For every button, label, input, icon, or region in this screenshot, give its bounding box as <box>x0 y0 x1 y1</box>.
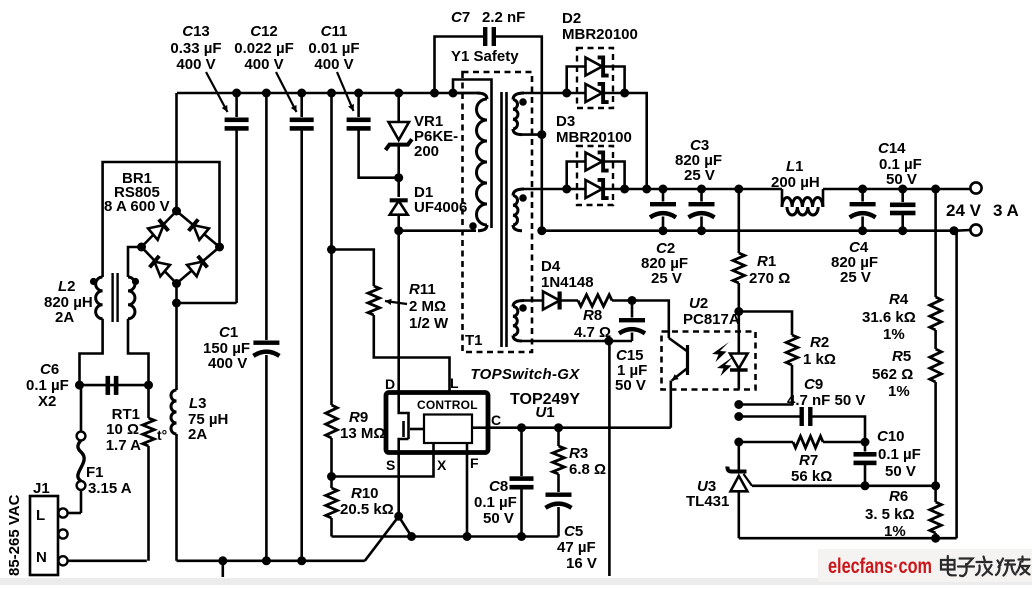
svg-text:C14: C14 <box>878 140 906 157</box>
wire: opto collector to bias supply <box>632 301 669 333</box>
svg-text:2A: 2A <box>188 426 207 443</box>
svg-text:L: L <box>36 507 45 524</box>
svg-text:L3: L3 <box>189 395 207 412</box>
svg-text:400 V: 400 V <box>208 355 247 372</box>
svg-text:C8: C8 <box>489 478 508 495</box>
thermistor RT1 10 ohm 1.7 A <box>106 385 168 561</box>
connector J1 85-265 VAC <box>6 480 81 576</box>
wire: L2 right leg to C6/RT1 <box>128 319 149 385</box>
elecfans watermark <box>818 549 1032 582</box>
chinese caption dian zi fa shao you <box>941 556 1030 576</box>
svg-text:C7: C7 <box>451 9 470 26</box>
wire: drain vertical to U1 D pin <box>397 231 400 393</box>
svg-text:T1: T1 <box>465 332 483 349</box>
svg-text:R3: R3 <box>569 445 588 462</box>
svg-text:D3: D3 <box>556 113 575 130</box>
svg-text:20.5 kΩ: 20.5 kΩ <box>340 501 394 518</box>
svg-text:R10: R10 <box>351 485 379 502</box>
svg-text:0.1 µF: 0.1 µF <box>878 446 921 463</box>
svg-text:C6: C6 <box>40 361 59 378</box>
dual diode D3 MBR20100 <box>556 113 632 205</box>
svg-text:C12: C12 <box>250 23 278 40</box>
wire: output negative return vertical <box>955 231 958 539</box>
common-mode choke L2 820 uH 2A <box>44 273 139 326</box>
svg-text:F: F <box>470 455 479 471</box>
capacitor C15 1 uF 50 V <box>615 301 647 395</box>
capacitor C10 0.1 uF 50 V <box>854 428 921 490</box>
wire: L2 left leg to C6 <box>80 319 103 385</box>
wire: L2 right to bridge AC input (left vertex) <box>128 247 142 277</box>
wire: bridge negative output node <box>172 284 237 391</box>
wire: drain node to primary bottom <box>399 229 476 232</box>
wire: opto emitter to control pin <box>669 389 672 428</box>
svg-text:400 V: 400 V <box>314 56 353 73</box>
svg-text:50 V: 50 V <box>615 377 646 394</box>
svg-text:2A: 2A <box>55 309 74 326</box>
svg-text:1N4148: 1N4148 <box>541 274 594 291</box>
svg-text:31.6 kΩ: 31.6 kΩ <box>862 309 916 326</box>
wire: 24V output rail <box>524 185 970 194</box>
wire: primary source rail <box>332 532 559 541</box>
wire: TL431 reference line <box>752 481 940 490</box>
capacitor C1 150 uF 400 V <box>203 93 279 561</box>
wire: secondary return rail <box>542 226 959 235</box>
fuse F1 3.15 A <box>77 385 132 513</box>
svg-text:10 Ω: 10 Ω <box>106 421 139 438</box>
svg-text:1.7 A: 1.7 A <box>106 437 141 454</box>
wire: rail drop to bridge positive output <box>175 93 178 211</box>
transformer T1 secondary winding 2 <box>513 189 527 231</box>
svg-text:N: N <box>36 549 47 566</box>
svg-text:X2: X2 <box>38 393 56 410</box>
svg-text:6.8 Ω: 6.8 Ω <box>569 461 606 478</box>
svg-text:13 MΩ: 13 MΩ <box>340 425 385 442</box>
inductor L3 75 uH 2A <box>171 390 228 561</box>
svg-text:UF4006: UF4006 <box>414 199 467 216</box>
svg-text:25 V: 25 V <box>651 270 682 287</box>
resistor R10 20.5 kohm <box>326 485 394 518</box>
svg-text:L2: L2 <box>58 278 76 295</box>
svg-text:1/2 W: 1/2 W <box>409 315 449 332</box>
transformer T1 dashed box <box>463 72 533 352</box>
capacitor C6 0.1 uF X2 <box>26 361 153 410</box>
transformer T1 core <box>502 92 507 347</box>
svg-text:0.1 µF: 0.1 µF <box>474 494 517 511</box>
inductor L1 200 uH <box>771 158 823 215</box>
svg-text:D: D <box>385 376 395 392</box>
resistor R11 2 Mohm 1/2 W <box>327 245 450 393</box>
capacitor C11 0.01 uF 400 V <box>308 23 398 178</box>
capacitor C3 820 uF 25 V <box>675 137 722 231</box>
svg-text:U1: U1 <box>535 404 554 421</box>
svg-text:0.33 µF: 0.33 µF <box>170 40 221 57</box>
svg-text:D4: D4 <box>541 258 561 275</box>
optocoupler U2 PC817A <box>662 295 756 390</box>
svg-text:0.1 µF: 0.1 µF <box>26 377 69 394</box>
svg-text:50 V: 50 V <box>483 510 514 527</box>
svg-text:3. 5 kΩ: 3. 5 kΩ <box>865 506 915 523</box>
svg-text:0.022 µF: 0.022 µF <box>234 40 294 57</box>
svg-text:47 µF: 47 µF <box>557 539 596 556</box>
transformer T1 primary winding <box>453 93 487 231</box>
svg-text:Y1 Safety: Y1 Safety <box>451 48 519 65</box>
svg-text:R4: R4 <box>889 291 909 308</box>
transformer T1 shield winding <box>453 80 492 229</box>
svg-text:C13: C13 <box>182 23 210 40</box>
U1 part labels <box>470 366 580 421</box>
svg-text:J1: J1 <box>33 480 50 497</box>
svg-text:TL431: TL431 <box>686 493 729 510</box>
svg-text:400 V: 400 V <box>176 56 215 73</box>
svg-text:2.2 nF: 2.2 nF <box>482 9 525 26</box>
capacitor C8 0.1 uF 50 V <box>474 428 534 537</box>
svg-text:PC817A: PC817A <box>683 311 740 328</box>
svg-text:C10: C10 <box>877 428 905 445</box>
resistor R7 56 kohm <box>734 436 869 485</box>
svg-text:TOPSwitch-GX: TOPSwitch-GX <box>470 366 580 383</box>
svg-text:50 V: 50 V <box>885 463 916 480</box>
svg-text:R9: R9 <box>349 409 368 426</box>
svg-text:562 Ω: 562 Ω <box>872 366 913 383</box>
resistor R8 4.7 ohm <box>574 295 637 341</box>
svg-text:1%: 1% <box>888 383 910 400</box>
wire: C pin control line <box>488 423 671 432</box>
svg-text:CONTROL: CONTROL <box>417 398 478 412</box>
svg-text:24 V: 24 V <box>946 201 982 220</box>
svg-text:25 V: 25 V <box>684 167 715 184</box>
capacitor C5 47 uF 16 V <box>546 493 597 573</box>
transient suppressor VR1 P6KE-200 <box>386 93 459 182</box>
svg-text:25 V: 25 V <box>840 269 871 286</box>
svg-text:200 µH: 200 µH <box>771 174 820 191</box>
svg-text:L: L <box>450 375 459 391</box>
capacitor C14 0.1 uF 50 V <box>878 140 922 231</box>
capacitor C9 4.7 nF 50 V <box>734 376 865 442</box>
svg-text:F1: F1 <box>86 464 104 481</box>
resistor R5 562 ohm 1% <box>872 330 941 486</box>
wire: J1 neutral line <box>66 559 147 562</box>
svg-text:1%: 1% <box>883 326 905 343</box>
wire: X pin to R9/R10 divider <box>332 453 434 477</box>
resistor R3 6.8 ohm <box>553 428 606 492</box>
svg-text:R2: R2 <box>810 334 829 351</box>
svg-text:D2: D2 <box>562 10 581 27</box>
svg-text:85-265 VAC: 85-265 VAC <box>6 494 23 576</box>
bridge rectifier BR1 RS805 8 A 600 V <box>104 170 224 288</box>
svg-text:R6: R6 <box>889 488 908 505</box>
svg-text:0.01 µF: 0.01 µF <box>308 40 359 57</box>
svg-text:270 Ω: 270 Ω <box>749 270 790 287</box>
svg-text:4.7 nF 50 V: 4.7 nF 50 V <box>787 392 865 409</box>
svg-text:C5: C5 <box>564 523 583 540</box>
resistor R6 3.5 kohm 1% <box>865 486 941 540</box>
wire: D2 output drop to output rail <box>625 93 647 189</box>
dual diode D2 MBR20100 <box>562 10 638 108</box>
svg-text:400 V: 400 V <box>244 56 283 73</box>
svg-text:50 V: 50 V <box>886 171 917 188</box>
resistor R1 270 ohm <box>733 189 790 332</box>
svg-text:X: X <box>437 457 447 473</box>
svg-text:1%: 1% <box>884 523 906 540</box>
bottom edge band <box>0 578 1032 585</box>
diode D1 UF4006 <box>390 178 468 236</box>
svg-text:3.15 A: 3.15 A <box>88 480 132 497</box>
resistor R9 13 Mohm <box>326 93 386 537</box>
capacitor C13 0.33 uF 400 V <box>170 23 248 303</box>
svg-text:16 V: 16 V <box>566 555 597 572</box>
transformer T1 bias winding <box>513 301 527 342</box>
wire: secondary ground bottom rail <box>739 534 957 543</box>
svg-text:R1: R1 <box>757 253 776 270</box>
shunt regulator U3 TL431 <box>686 442 752 538</box>
resistor R2 1 kohm <box>734 312 836 410</box>
svg-text:elecfans·com: elecfans·com <box>828 555 932 578</box>
diode D4 1N4148 <box>524 258 594 310</box>
svg-text:56 kΩ: 56 kΩ <box>791 468 832 485</box>
svg-text:2 MΩ: 2 MΩ <box>409 298 446 315</box>
capacitor C7 2.2 nF Y1 Safety <box>435 9 547 235</box>
capacitor C12 0.022 uF 400 V <box>234 23 313 561</box>
wire: primary DC+ top rail <box>177 89 477 98</box>
svg-text:C1: C1 <box>219 324 238 341</box>
svg-text:C: C <box>491 412 501 428</box>
svg-text:S: S <box>386 457 395 473</box>
transformer T1 secondary winding 1 <box>513 93 542 135</box>
svg-text:C11: C11 <box>321 23 348 40</box>
svg-text:8 A 600 V: 8 A 600 V <box>104 198 170 215</box>
svg-text:R5: R5 <box>892 348 911 365</box>
svg-text:3 A: 3 A <box>993 201 1019 220</box>
wire: F pin down <box>466 453 469 537</box>
svg-text:MBR20100: MBR20100 <box>562 26 638 43</box>
svg-text:t°: t° <box>157 427 167 443</box>
svg-text:R11: R11 <box>409 281 436 298</box>
wire: secondary winding 1 to D2 line <box>524 92 567 95</box>
svg-text:1 kΩ: 1 kΩ <box>803 351 836 368</box>
wire: bias winding return <box>522 337 632 577</box>
svg-text:R7: R7 <box>799 452 818 469</box>
svg-text:U2: U2 <box>689 295 708 312</box>
svg-text:C9: C9 <box>804 376 823 393</box>
wire: S pin to star point <box>397 453 400 517</box>
wire: DC minus return line with source star point <box>177 512 412 577</box>
svg-text:200: 200 <box>414 143 439 160</box>
TOPSwitch-GX U1 TOP249Y block <box>386 393 488 453</box>
svg-text:R8: R8 <box>583 307 602 324</box>
capacitor C4 820 uF 25 V <box>831 189 878 286</box>
svg-text:MBR20100: MBR20100 <box>556 129 632 146</box>
capacitor C2 820 uF 25 V <box>641 189 688 287</box>
resistor R4 31.6 kohm 1% <box>862 189 941 343</box>
wire: L2 left to bridge AC input (right vertex) <box>103 162 220 277</box>
output terminals 24 V 3 A <box>946 182 1019 235</box>
svg-text:L1: L1 <box>786 158 804 175</box>
